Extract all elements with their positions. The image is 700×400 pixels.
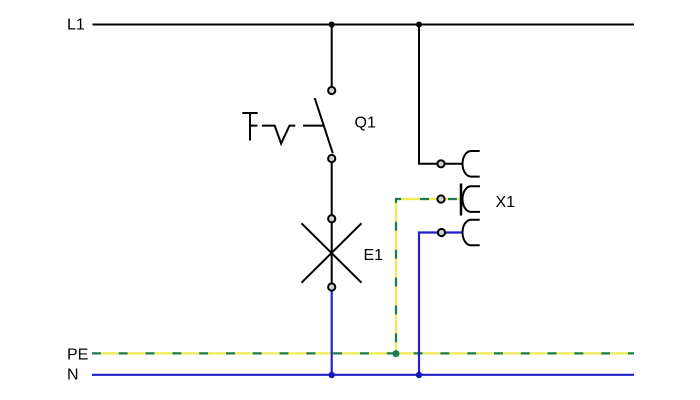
junction on N at E1 (329, 372, 335, 378)
svg-text:Q1: Q1 (355, 114, 376, 131)
svg-text:E1: E1 (364, 247, 384, 264)
wire N bus up and across to X1 N contact (blue) (419, 233, 463, 375)
svg-text:X1: X1 (496, 194, 516, 211)
junction on N at X1 (416, 372, 422, 378)
wire L1 bus (93, 24, 635, 26)
socket X1 N contact arc (463, 220, 480, 246)
junction on L1 at Q1 branch (329, 22, 335, 28)
terminal X1 PE contact (437, 195, 444, 202)
terminal E1 bottom (328, 283, 335, 290)
wire PE bus up and across to X1 PE contact (yellow/green) (396, 199, 461, 353)
wire L1 down and across to socket X1 L contact (419, 25, 463, 164)
socket X1 L contact arc (463, 151, 480, 177)
svg-text:PE: PE (67, 347, 88, 364)
terminal E1 top (328, 215, 335, 222)
terminal Q1 top (328, 87, 335, 94)
wire L1 down to switch Q1 (331, 25, 333, 91)
terminal X1 L contact (437, 160, 444, 167)
terminal Q1 bottom (328, 155, 335, 162)
socket X1 PE contact (bar + arc) (461, 184, 480, 216)
junction on PE bus (392, 350, 399, 357)
wire N bus (blue) (92, 374, 634, 376)
wire PE bus (yellow with green dashes) (92, 352, 634, 354)
switch Q1 (blade + manual actuator with latching link) (242, 98, 332, 153)
wire Q1 to lamp E1 (331, 158, 333, 219)
svg-text:L1: L1 (67, 17, 85, 34)
svg-text:N: N (67, 367, 79, 384)
junction on L1 at X1 branch (416, 22, 422, 28)
wire E1 to N bus (blue) (331, 287, 333, 375)
terminal X1 N contact (438, 229, 445, 236)
lamp E1 (cross symbol) (302, 220, 362, 287)
